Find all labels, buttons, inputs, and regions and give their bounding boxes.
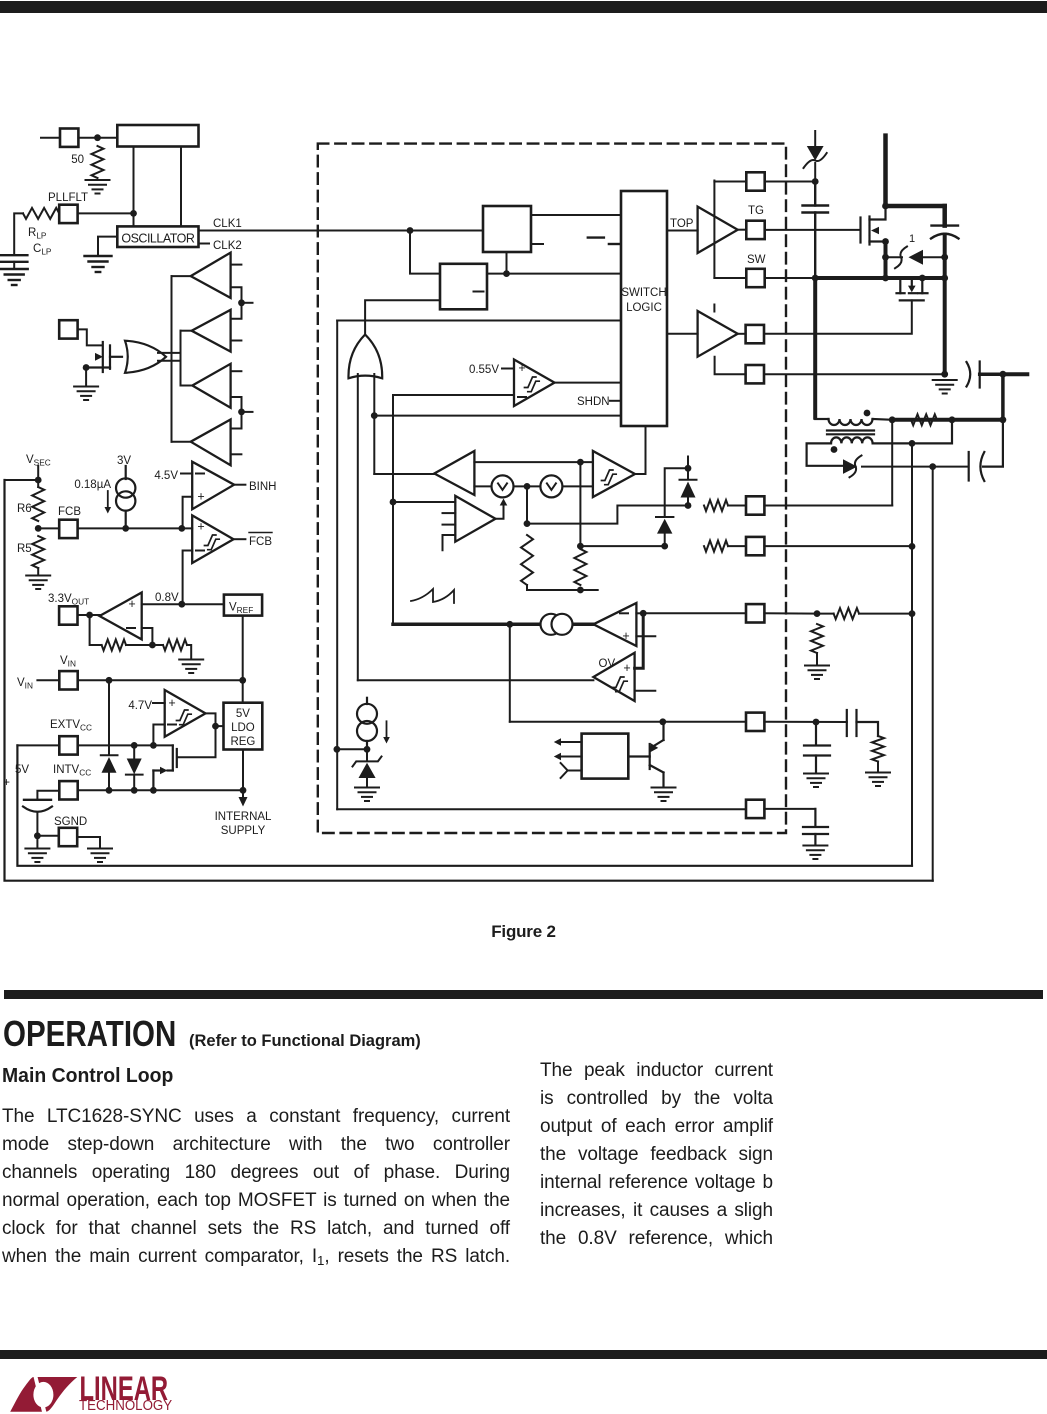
junction	[240, 787, 247, 794]
wire	[764, 505, 766, 507]
ground RF	[179, 660, 203, 674]
driver U6	[698, 207, 738, 253]
ground SGND	[88, 849, 112, 863]
svg-text:FCB: FCB	[58, 506, 81, 518]
amp EA	[455, 496, 495, 542]
resistor RF2	[163, 640, 187, 651]
junction SW	[812, 275, 819, 282]
svg-text:SGND: SGND	[54, 816, 87, 828]
diode DZ2	[656, 517, 673, 546]
hysteresis glyph FCB	[205, 535, 220, 550]
junction	[909, 610, 916, 617]
wire oscillator to ground	[98, 237, 117, 255]
transistor Q5	[86, 342, 122, 372]
junction	[1000, 371, 1007, 378]
wire PGND left	[715, 357, 746, 375]
pin BG	[746, 325, 764, 343]
transformer T1 primary	[815, 419, 892, 425]
svg-text:SUPPLY: SUPPLY	[221, 825, 266, 837]
schottky diode DB	[804, 131, 827, 180]
wire	[728, 545, 746, 547]
wire to ITH pin	[643, 612, 746, 614]
wire BOOST right	[765, 181, 816, 183]
resistor RITH	[834, 608, 859, 619]
wire 0.8V	[142, 603, 224, 605]
amp A2	[100, 593, 142, 640]
capacitor CB	[803, 182, 829, 279]
pin SENSE+	[746, 496, 764, 514]
ground oscillator	[85, 256, 112, 272]
svg-text:RLP: RLP	[28, 227, 47, 241]
resistor RLP	[23, 208, 59, 219]
wire phase det to oscillator	[180, 147, 182, 227]
svg-text:CLK2: CLK2	[213, 240, 242, 252]
capacitor C2	[967, 362, 1003, 388]
current source I3	[357, 698, 377, 750]
junction	[150, 787, 157, 794]
svg-text:OV: OV	[599, 658, 616, 670]
wire M1 source to SW	[884, 242, 888, 279]
wire to CLP	[14, 213, 23, 254]
minus FCBc	[196, 550, 204, 552]
diode DZ1	[680, 457, 697, 506]
fork symbol	[561, 763, 582, 778]
wire to LDO	[216, 725, 224, 727]
buffer B4	[191, 420, 231, 466]
wire to switch logic	[374, 415, 621, 417]
svg-text:0.18µA: 0.18µA	[74, 479, 111, 491]
wire TG to M1 gate	[765, 229, 861, 231]
wire U2 to U3 node	[506, 252, 508, 274]
resistor 50	[92, 146, 104, 178]
minus U9	[168, 724, 176, 726]
resistor RS2	[574, 549, 586, 585]
wire VIN	[883, 136, 888, 206]
svg-text:R5: R5	[17, 543, 32, 555]
svg-text:4.5V: 4.5V	[154, 470, 178, 482]
wire ITH rail	[393, 623, 593, 627]
sense element V1	[492, 475, 514, 497]
junction 0.8V	[178, 601, 185, 608]
or-gate G2	[348, 335, 382, 379]
wire LDO out	[242, 750, 244, 791]
wire phase det to oscillator	[133, 147, 135, 227]
wire vertical to ITH	[392, 395, 394, 624]
stub B3	[231, 370, 242, 372]
junction output	[889, 416, 896, 423]
pin TG	[746, 221, 764, 239]
junction RUN	[334, 746, 341, 753]
wire to ground	[187, 645, 191, 658]
stub U2	[531, 243, 543, 245]
junction M1 source	[882, 238, 889, 245]
wire	[37, 835, 58, 837]
wire FCB minus to 0.8V	[183, 551, 193, 605]
wire PLLIN to phase detector	[78, 137, 117, 139]
stub B1	[231, 264, 242, 266]
junction VSEC	[35, 477, 42, 484]
ground battery	[25, 849, 49, 863]
wire	[728, 505, 746, 507]
minus U4	[518, 396, 526, 398]
junction ITH pin node	[640, 610, 647, 617]
svg-text:INTERNAL: INTERNAL	[215, 811, 272, 823]
ground CLP	[1, 269, 28, 285]
junction	[813, 719, 820, 726]
fault box U8	[582, 734, 629, 779]
wire CLK1 to U3	[410, 231, 440, 274]
junction	[239, 677, 246, 684]
wire to OV plus	[635, 613, 644, 668]
wire EXTVCC left	[17, 744, 59, 746]
resistor sense-	[704, 541, 728, 552]
junction ITH	[506, 621, 513, 628]
junction	[149, 642, 156, 649]
driver U7	[698, 311, 738, 357]
switch logic box U5	[621, 191, 667, 426]
wire driver to BG	[738, 333, 746, 335]
svg-text:REG: REG	[230, 736, 255, 748]
wire feedback left	[90, 615, 102, 645]
or-gate G1	[125, 341, 166, 373]
phase detector box	[117, 125, 198, 147]
resistor RF1	[102, 640, 126, 651]
junction	[909, 440, 916, 447]
svg-text:+: +	[3, 775, 10, 789]
junction	[685, 502, 692, 509]
junction	[86, 612, 93, 619]
wire to SENSE-	[580, 545, 664, 547]
stub EA input2	[443, 524, 456, 526]
ground PGND	[933, 380, 957, 394]
bracket B1-B2	[231, 287, 242, 319]
svg-text:+: +	[518, 361, 525, 375]
pin VIN	[59, 671, 77, 689]
wire B4 input	[172, 441, 191, 443]
junction	[1000, 416, 1007, 423]
wire output sense vertical	[891, 420, 893, 506]
junction	[882, 275, 889, 282]
wire VIN to CIN	[886, 204, 945, 209]
wire G2 input2 vertical	[373, 374, 375, 474]
wire PLLFLT to oscillator	[78, 212, 134, 214]
stub 4.5V	[181, 473, 192, 475]
inner frame	[17, 745, 912, 865]
resistor R5	[32, 536, 44, 568]
resistor output	[911, 414, 937, 425]
junction	[390, 499, 397, 506]
svg-text:+: +	[622, 629, 629, 643]
ground Q2	[652, 788, 676, 802]
ground C5	[804, 774, 828, 788]
stub bracket1	[242, 302, 253, 304]
wire to EA	[393, 501, 455, 503]
svg-text:3.3VOUT: 3.3VOUT	[48, 593, 89, 607]
mosfet Q3	[153, 745, 176, 790]
pin PGND	[746, 365, 764, 383]
zener diode Z1	[353, 749, 382, 786]
wire	[38, 527, 59, 529]
junction D2 out	[929, 463, 936, 470]
stub BINH out	[234, 484, 245, 486]
minus A2	[127, 627, 135, 629]
wire VOUT stub	[1003, 372, 1027, 376]
svg-text:SW: SW	[747, 254, 766, 266]
svg-text:LDO: LDO	[231, 722, 255, 734]
wire VSEC	[37, 466, 39, 487]
wire EXTVCC rail right	[911, 443, 913, 865]
minus mark	[588, 236, 604, 238]
junction	[909, 543, 916, 550]
oscillator box	[117, 226, 198, 247]
pin PLLIN	[60, 129, 78, 147]
pin PLLFLT	[59, 205, 77, 223]
sense element V2	[540, 475, 562, 497]
wire sense bottom rail	[527, 585, 598, 590]
stub bracket2	[242, 411, 253, 413]
resistor RITH2	[811, 624, 823, 653]
wire G1 output a	[158, 352, 181, 354]
wire	[816, 653, 818, 664]
TECHNOLOGY text	[79, 1396, 173, 1413]
latch box U2	[483, 206, 531, 252]
junction	[371, 412, 378, 419]
wire SENSE- to rail	[764, 545, 912, 547]
schottky diode D2	[843, 456, 968, 478]
hysteresis glyph U9	[177, 710, 192, 725]
wire to I1 comparator	[374, 473, 434, 475]
junction PLLFLT	[130, 210, 137, 217]
wire SW rail	[815, 276, 945, 280]
LINEAR text	[80, 1370, 169, 1408]
pin SGND2	[746, 713, 764, 731]
pin SENSE-	[746, 537, 764, 555]
wire RUN to I3	[337, 748, 367, 750]
junction D1 anode	[882, 254, 889, 261]
wire ITH to SS	[509, 624, 511, 722]
capacitor CIN	[931, 206, 959, 374]
stub FCB out	[234, 538, 246, 540]
svg-text:SWITCH: SWITCH	[621, 287, 666, 299]
svg-text:+: +	[623, 661, 630, 675]
stub EA input3	[443, 535, 456, 550]
junction	[150, 742, 157, 749]
stub SHDN	[610, 400, 621, 402]
junction	[131, 787, 138, 794]
svg-text:LOGIC: LOGIC	[626, 302, 662, 314]
pin SW	[746, 269, 764, 287]
wire SGND to ground	[77, 837, 100, 848]
comparator BINH	[192, 462, 234, 510]
resistor sense+	[704, 500, 728, 511]
wire ITH ext	[764, 612, 817, 614]
wire pin to Q5 gate	[78, 329, 102, 345]
wire	[579, 462, 581, 546]
junction	[364, 746, 371, 753]
resistor RS1	[521, 535, 533, 585]
wire TOP	[667, 230, 698, 232]
junction	[941, 275, 948, 282]
amp EA2	[593, 603, 636, 646]
LT logo slash cut	[33, 1376, 46, 1413]
stub driver top	[713, 305, 715, 312]
junction	[503, 270, 510, 277]
junction	[577, 543, 584, 550]
svg-text:50: 50	[71, 154, 84, 166]
svg-text:TECHNOLOGY: TECHNOLOGY	[79, 1396, 173, 1413]
wire VSEC rail right	[932, 467, 934, 881]
junction CLK1	[407, 227, 414, 234]
latch box U3	[440, 264, 487, 310]
wire CLK1	[199, 230, 484, 232]
junction	[524, 483, 531, 490]
wire INTVCC net	[78, 789, 243, 791]
buffer B2	[192, 310, 231, 352]
junction	[131, 742, 138, 749]
minus EA2	[620, 612, 628, 614]
capacitor C3	[969, 420, 1003, 481]
svg-text:R6: R6	[17, 503, 32, 515]
wire RUN ext	[764, 808, 815, 810]
junction	[814, 610, 821, 617]
wire BG to M2 gate	[765, 300, 912, 333]
stub EA input1	[443, 512, 456, 514]
battery 5V	[23, 791, 59, 836]
svg-text:0.55V: 0.55V	[469, 364, 499, 376]
junction	[106, 787, 113, 794]
pin SGND	[59, 828, 77, 846]
svg-text:+: +	[128, 597, 135, 611]
capacitor CLP	[1, 254, 27, 256]
svg-text:BINH: BINH	[249, 481, 276, 493]
wire V2 to I2	[563, 485, 593, 487]
ground CSS	[803, 846, 827, 860]
wire FCB net	[78, 527, 193, 529]
svg-text:1: 1	[909, 233, 915, 245]
bus line B	[180, 331, 182, 386]
junction SGND	[34, 832, 41, 839]
comparator I1	[434, 451, 474, 495]
pin phase mode	[59, 320, 77, 338]
junction	[949, 416, 956, 423]
stub 4.7V	[153, 702, 165, 704]
pin 3.3VOUT	[59, 606, 77, 624]
ground Z1	[355, 788, 379, 802]
IC boundary dashed box	[318, 144, 786, 833]
wire B2 input	[181, 330, 192, 332]
transistor Q2	[628, 722, 663, 786]
wire EXTVCC net	[78, 744, 173, 746]
mosfet M2	[897, 278, 928, 300]
svg-text:+: +	[197, 490, 204, 504]
capacitor CSS	[803, 809, 828, 844]
wire Q5 to ground	[85, 368, 87, 386]
svg-text:PLLFLT: PLLFLT	[48, 192, 88, 204]
stub OV	[635, 690, 656, 692]
wire U9 minus	[153, 725, 164, 746]
junction DZ1	[685, 465, 692, 472]
wire	[78, 614, 100, 616]
pin INTVCC	[59, 781, 77, 799]
wire SW right	[765, 277, 816, 279]
wire BOT	[667, 333, 698, 335]
wire VSEC to frame	[5, 479, 39, 481]
arrow I4	[105, 491, 112, 514]
svg-text:CLP: CLP	[33, 243, 52, 257]
outer frame	[5, 480, 933, 881]
junction	[661, 543, 668, 550]
junction	[212, 723, 219, 730]
mosfet M1	[861, 208, 886, 255]
wire	[877, 762, 879, 772]
ground	[866, 773, 890, 787]
comparator U9	[165, 690, 206, 737]
pin BOOST	[746, 172, 764, 190]
svg-text:SHDN: SHDN	[577, 396, 610, 408]
LT logo notch cut	[33, 1382, 53, 1408]
arrow I3	[383, 721, 390, 743]
junction	[577, 459, 584, 466]
svg-text:OSCILLATOR: OSCILLATOR	[121, 232, 195, 246]
stub 0.55V	[502, 368, 514, 370]
wire to switch logic	[337, 320, 621, 322]
bus line A	[171, 276, 173, 442]
wire	[526, 486, 528, 523]
svg-text:+: +	[168, 696, 175, 710]
capacitor C4	[847, 710, 878, 736]
wire I1 to V1	[474, 485, 491, 487]
junction bracket1	[238, 299, 245, 306]
arrow out1	[554, 738, 582, 745]
vref box	[224, 595, 262, 616]
wire	[37, 679, 59, 681]
svg-text:VIN: VIN	[17, 677, 33, 691]
wire EA2 minus	[636, 612, 643, 614]
wire driver to TG	[738, 229, 747, 231]
transformer T1 core	[827, 429, 874, 431]
stub B2	[231, 340, 242, 342]
phase dot primary	[864, 410, 871, 417]
wire B3 input	[181, 385, 193, 387]
svg-text:TOP: TOP	[670, 218, 694, 230]
resistor C4R	[872, 736, 884, 762]
wire G1 output b	[158, 360, 181, 362]
wire I2 output to switch logic	[635, 426, 646, 474]
comparator U4	[514, 360, 555, 407]
LT logo glyph body	[10, 1377, 77, 1412]
wire DZ1 to DZ2	[665, 468, 688, 517]
wire I1 to I2	[474, 461, 593, 463]
wire	[36, 836, 38, 848]
hysteresis glyph OV	[613, 677, 628, 692]
transformer T1 secondary	[807, 420, 952, 466]
wire	[859, 613, 912, 615]
wire V1 to V2	[514, 485, 540, 487]
junction D1 cathode	[941, 254, 948, 261]
ground Q5	[74, 387, 98, 401]
wire down to output node	[1001, 374, 1005, 420]
hysteresis glyph U4	[525, 377, 540, 392]
wire SS rail	[510, 721, 746, 723]
capacitor C5	[804, 722, 830, 772]
stub EA2 plus	[636, 635, 655, 637]
wire CLK2 stub	[199, 243, 210, 245]
wire SW to transformer	[813, 278, 817, 418]
junction	[106, 677, 113, 684]
minus BINH	[196, 473, 204, 475]
wire VREF to LDO	[242, 616, 244, 703]
wire BINH plus	[183, 497, 193, 528]
